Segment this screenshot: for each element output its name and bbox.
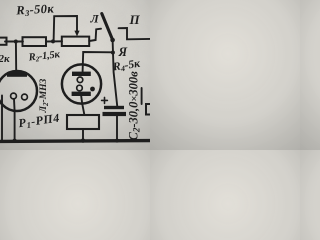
- wire C2 to bottom rail: [116, 116, 118, 140]
- potentiometer R3 50k: [62, 37, 89, 46]
- plus polarity mark of C2: [102, 97, 108, 103]
- node junction feedback tap: [51, 39, 55, 43]
- resistor R4 body (cut off at right edge): [146, 104, 156, 115]
- resistor R1 (cut off at left edge, value 2k): [0, 38, 7, 45]
- svg-text:Л: Л: [90, 12, 100, 26]
- lamp L2 anode bar: [7, 72, 27, 77]
- lamp L2 (MN-3, left) envelope: [0, 71, 37, 111]
- node switch pivot: [110, 38, 115, 43]
- wire left edge drop: [1, 96, 3, 141]
- tube L1 bottom electrode bar: [72, 92, 91, 96]
- wire right edge stub: [141, 88, 143, 104]
- wire lamp L2 lead to bottom rail: [13, 99, 16, 140]
- node junction lamp lead/bottom rail: [12, 139, 16, 143]
- svg-text:Л2-МН3: Л2-МН3: [39, 78, 50, 113]
- svg-text:Я: Я: [118, 45, 128, 59]
- node junction anode wire: [111, 51, 115, 55]
- switch P blade: [102, 14, 113, 40]
- tube L1 (gas-filled, middle) envelope: [62, 64, 101, 103]
- relay R1 coil (RP-4): [67, 115, 99, 129]
- resistor R2 1,5k: [23, 37, 47, 46]
- wire anode lead down to lamp L2: [15, 42, 17, 73]
- capacitor C2 top plate: [104, 106, 124, 109]
- tube L1 top electrode bar: [72, 72, 91, 76]
- wire P stub: [119, 28, 151, 39]
- lamp L2 pin left: [11, 93, 17, 99]
- node junction C2/bottom rail: [115, 139, 119, 143]
- paper texture: [0, 0, 150, 150]
- svg-text:П: П: [129, 12, 141, 27]
- wire rail R2 to R3: [46, 40, 62, 42]
- bottom rail (minus bus): [0, 139, 152, 143]
- wire anode supply rail down right side: [113, 40, 118, 106]
- tube L1 pin below top electrode: [77, 77, 83, 83]
- wire anode of tube L1: [83, 52, 113, 72]
- svg-text:2к: 2к: [0, 53, 10, 65]
- node junction of R1/R2 and lamp lead: [14, 40, 18, 44]
- wire feedback loop up and over: [54, 16, 77, 41]
- wire R3 to switch contact: [89, 29, 101, 41]
- wire coil to bottom rail: [82, 129, 84, 140]
- node junction coil/bottom rail: [81, 138, 85, 142]
- wiper arrow of potentiometer R3: [74, 31, 79, 37]
- tube L1 gas dot: [90, 87, 95, 92]
- wire cathode lead of L1 down to relay coil: [81, 96, 84, 115]
- capacitor C2 bottom plate: [103, 112, 127, 116]
- lamp L2 pin right: [22, 94, 28, 100]
- tube L1 pin above bottom electrode: [77, 85, 83, 91]
- wire top rail left: [5, 41, 23, 43]
